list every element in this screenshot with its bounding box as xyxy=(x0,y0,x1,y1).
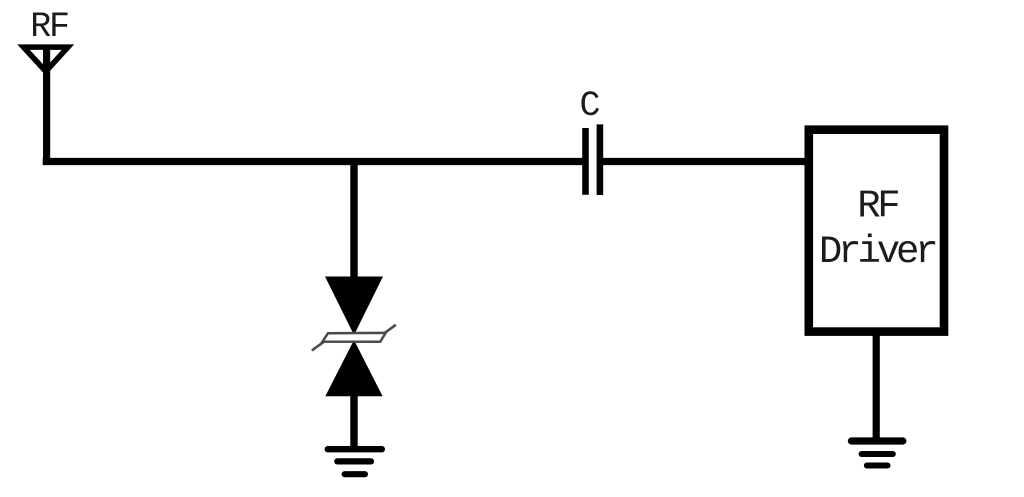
capacitor C right plate xyxy=(597,124,604,195)
ground GND1 bar 3 xyxy=(345,471,365,477)
capacitor C left plate xyxy=(582,128,589,195)
block U1 RF Driver box xyxy=(809,130,944,332)
svg-text:Driver: Driver xyxy=(819,230,935,274)
wire main bus left segment xyxy=(43,158,585,165)
diode D1 top (TVS bidirectional) xyxy=(325,277,383,336)
wire diode to ground xyxy=(350,395,357,450)
node junction bus/diode xyxy=(350,158,357,278)
antenna ANT1 xyxy=(17,44,74,75)
ground GND2 bar 2 xyxy=(862,451,893,457)
zener bar parallelogram xyxy=(323,333,386,342)
diode D1 bottom xyxy=(325,340,382,396)
zener bar left tail xyxy=(312,341,325,350)
svg-text:C: C xyxy=(580,86,601,126)
zener bar right tail xyxy=(384,325,396,334)
svg-text:RF: RF xyxy=(30,7,68,47)
wire box to ground xyxy=(873,331,880,441)
svg-text:F: F xyxy=(877,184,900,228)
ground GND1 bar 1 xyxy=(328,446,382,452)
wire bus right segment xyxy=(603,158,809,165)
wire antenna to bus xyxy=(43,48,50,166)
ground GND1 bar 2 xyxy=(337,458,371,464)
ground GND2 bar 1 xyxy=(851,437,903,444)
ground GND2 bar 3 xyxy=(867,462,888,468)
